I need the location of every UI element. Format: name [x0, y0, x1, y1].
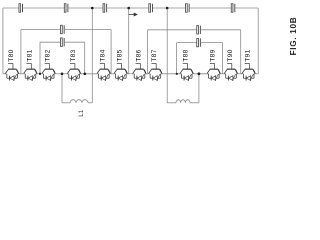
svg-text:T89: T89 — [210, 49, 217, 61]
node rail 86 — [84, 73, 87, 76]
feed arrow — [129, 13, 138, 17]
node top 167 — [166, 7, 169, 10]
svg-text:T88: T88 — [182, 49, 189, 61]
capacitor C8 — [61, 38, 65, 46]
figure label FIG. 10B — [289, 17, 298, 56]
svg-text:T81: T81 — [26, 49, 33, 61]
node rail 199 — [198, 72, 201, 75]
capacitor C4 — [149, 4, 153, 12]
svg-text:FIG. 10B: FIG. 10B — [289, 17, 298, 56]
wire inductor L2 right leg — [198, 74, 200, 103]
node rail 177 — [176, 73, 178, 75]
wire outer-left box left side — [20, 30, 22, 74]
transistor T85 — [114, 49, 128, 80]
wire outer-right box top edge — [148, 29, 241, 31]
wire drop node 92 to inductor L1 — [91, 8, 93, 103]
svg-text:T82: T82 — [44, 49, 51, 61]
svg-text:T84: T84 — [100, 49, 107, 61]
inductor L1 — [62, 100, 92, 117]
inductor L2 — [167, 100, 199, 103]
wire outer-right box left side — [147, 30, 149, 74]
wire drop node 167 to inductor L2 — [166, 8, 168, 103]
svg-text:L1: L1 — [78, 109, 85, 117]
svg-text:T80: T80 — [8, 49, 15, 61]
capacitor C6 — [231, 4, 235, 12]
transistor T80 — [5, 49, 19, 80]
transistor T81 — [24, 49, 38, 80]
capacitor C10 — [197, 38, 201, 46]
wire inner-right box top edge — [177, 42, 223, 44]
svg-text:T90: T90 — [227, 49, 234, 61]
transistor T87 — [149, 49, 163, 80]
wire top rail — [3, 7, 258, 9]
node top feed — [127, 7, 130, 10]
wire inner-right box right side — [222, 43, 224, 74]
wire inner-right box left side — [176, 43, 178, 74]
transistor T86 — [133, 49, 147, 80]
capacitor C3 — [103, 4, 107, 12]
capacitor C2 — [64, 4, 68, 12]
svg-text:T87: T87 — [151, 49, 158, 61]
svg-text:T86: T86 — [135, 49, 142, 61]
svg-text:T83: T83 — [70, 49, 77, 61]
node rail 41 — [39, 73, 41, 75]
wire inductor L1 left leg — [61, 74, 63, 103]
wire right rail — [257, 8, 259, 74]
transistor T89 — [207, 49, 221, 80]
transistor T88 — [180, 49, 194, 80]
transistor T84 — [97, 49, 111, 80]
capacitor C5 — [186, 4, 190, 12]
node top 92 — [91, 7, 94, 10]
transistor T82 — [42, 49, 56, 80]
wire feed drop — [128, 8, 130, 74]
transistor T91 — [242, 49, 256, 80]
node rail 62 — [61, 73, 64, 76]
capacitor C7 — [61, 25, 65, 33]
svg-text:T91: T91 — [244, 49, 251, 61]
wire left rail — [2, 8, 4, 74]
wire inner-left box top edge — [40, 41, 85, 43]
wire outer-right box right side — [240, 30, 242, 74]
transistor T90 — [224, 49, 238, 80]
capacitor C9 — [197, 26, 201, 34]
transistor T83 — [67, 49, 81, 80]
wire inner-left box right side — [84, 42, 86, 74]
svg-text:T85: T85 — [117, 49, 124, 61]
wire outer-left box top edge — [21, 29, 111, 31]
capacitor C1 — [19, 4, 23, 12]
wire cells rail — [3, 73, 258, 75]
wire inner-left box left side — [39, 42, 41, 74]
wire outer-left box right side — [110, 30, 112, 74]
